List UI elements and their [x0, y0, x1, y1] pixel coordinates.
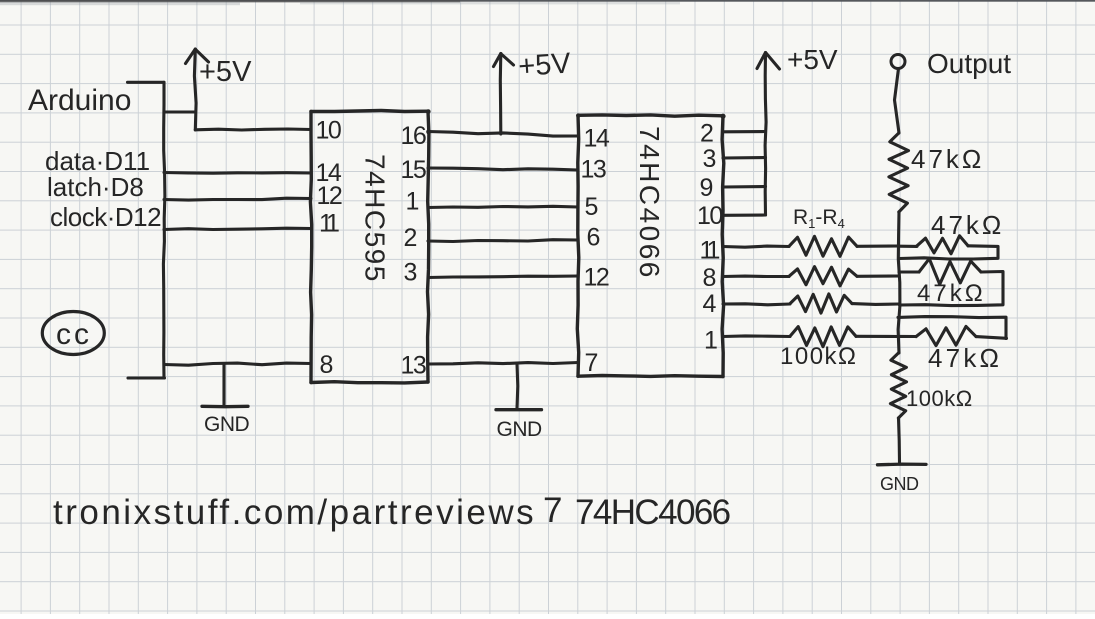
svg-text:3: 3: [703, 145, 717, 173]
divider bus vertical: [898, 212, 900, 353]
wire U1 pin1 to U2 pin5: [428, 206, 578, 207]
resistor R2: [723, 275, 789, 278]
ground GND3: [878, 462, 927, 466]
svg-text:47kΩ: 47kΩ: [928, 343, 1002, 373]
wire output terminal to divider: [895, 69, 900, 134]
power +5V arrow 2: [499, 54, 503, 135]
wire U2 pin2 to +5V rail: [723, 130, 766, 133]
wire +5V rail 1 to U1 pin 10: [195, 129, 311, 130]
svg-text:latch·D8: latch·D8: [47, 172, 144, 202]
wire U1 pin3 to U2 pin12: [428, 276, 578, 278]
svg-text:3: 3: [404, 259, 418, 287]
svg-text:12: 12: [584, 264, 609, 292]
svg-text:8: 8: [320, 351, 334, 379]
svg-text:5: 5: [585, 193, 599, 221]
Creative Commons mark: [42, 312, 104, 355]
svg-text:9: 9: [700, 174, 714, 202]
svg-text:47kΩ: 47kΩ: [931, 210, 1004, 240]
resistor 47k top vertical: [889, 133, 909, 212]
svg-text:GND: GND: [204, 413, 250, 436]
svg-text:Arduino: Arduino: [28, 84, 131, 117]
IC U2 74HC4066 body: [578, 115, 723, 116]
svg-text:7: 7: [543, 491, 562, 530]
svg-text:+5V: +5V: [787, 44, 838, 75]
wire U2 pin3 to +5V rail: [723, 156, 766, 160]
output terminal: [891, 55, 905, 69]
wire U2 pin9 to +5V rail: [723, 185, 766, 189]
svg-text:10: 10: [316, 117, 341, 145]
svg-text:8: 8: [703, 264, 717, 292]
svg-text:clock·D12: clock·D12: [50, 202, 161, 232]
svg-text:cc: cc: [56, 318, 92, 351]
wire data D11 to U1 pin 14: [164, 171, 311, 175]
svg-text:+5V: +5V: [517, 47, 572, 83]
wire U1 pin2 to U2 pin6: [428, 240, 578, 242]
wire U1 pin 8 to ground rail: [164, 363, 311, 365]
svg-text:100kΩ: 100kΩ: [780, 343, 857, 370]
svg-text:13: 13: [401, 352, 426, 380]
svg-text:13: 13: [581, 156, 606, 184]
svg-text:GND: GND: [497, 418, 543, 441]
svg-text:47kΩ: 47kΩ: [911, 144, 984, 174]
wire U1 pin13 to U2 pin7: [428, 363, 578, 365]
wire U1 pin16 to U2 pin14 Vcc: [428, 132, 578, 137]
svg-text:74HC595: 74HC595: [360, 154, 391, 283]
resistor R4: [723, 334, 790, 338]
svg-text:+5V: +5V: [199, 56, 252, 88]
svg-text:Output: Output: [927, 48, 1011, 79]
svg-text:2: 2: [404, 224, 418, 252]
wire U2 pin10 to +5V rail: [723, 213, 766, 216]
svg-text:7: 7: [585, 349, 599, 377]
svg-text:14: 14: [584, 125, 610, 153]
svg-text:16: 16: [401, 122, 426, 150]
svg-text:1: 1: [704, 327, 718, 355]
svg-text:tronixstuff.com/partreviews: tronixstuff.com/partreviews: [53, 493, 536, 532]
svg-text:47kΩ: 47kΩ: [917, 280, 986, 307]
resistor 47k B row2 loop: [899, 270, 919, 273]
svg-text:100kΩ: 100kΩ: [906, 386, 973, 411]
IC U1 74HC595 body: [311, 111, 428, 112]
svg-text:74HC4066: 74HC4066: [575, 493, 730, 532]
wire latch D8 to U1 pin 12: [164, 198, 311, 200]
resistor 100k bottom vertical: [890, 353, 906, 418]
svg-text:GND: GND: [880, 474, 919, 494]
svg-text:4: 4: [703, 290, 717, 318]
ground GND2: [515, 364, 519, 409]
Arduino connector bracket: [128, 81, 165, 84]
power +5V arrow 1: [194, 49, 196, 130]
svg-text:1: 1: [406, 188, 420, 216]
wire clock D12 to U1 pin 11: [164, 228, 311, 229]
svg-text:12: 12: [317, 182, 342, 210]
svg-text:2: 2: [700, 120, 714, 148]
wire U1 pin15 to U2 pin13: [428, 168, 578, 170]
wire Arduino rail to +5V rail 1: [164, 110, 195, 113]
svg-text:6: 6: [587, 224, 601, 252]
resistor 47k C row4 loop: [898, 317, 1006, 339]
svg-text:10: 10: [697, 202, 722, 230]
svg-text:15: 15: [401, 156, 426, 184]
resistor R3: [723, 304, 790, 305]
svg-text:R1-R4: R1-R4: [793, 206, 845, 231]
svg-text:74HC4066: 74HC4066: [634, 126, 665, 280]
power +5V rail 3 with arrow: [765, 53, 766, 216]
resistor R1: [723, 246, 789, 247]
ground GND1: [222, 365, 225, 406]
resistor 47k A row1 loop: [899, 245, 917, 248]
